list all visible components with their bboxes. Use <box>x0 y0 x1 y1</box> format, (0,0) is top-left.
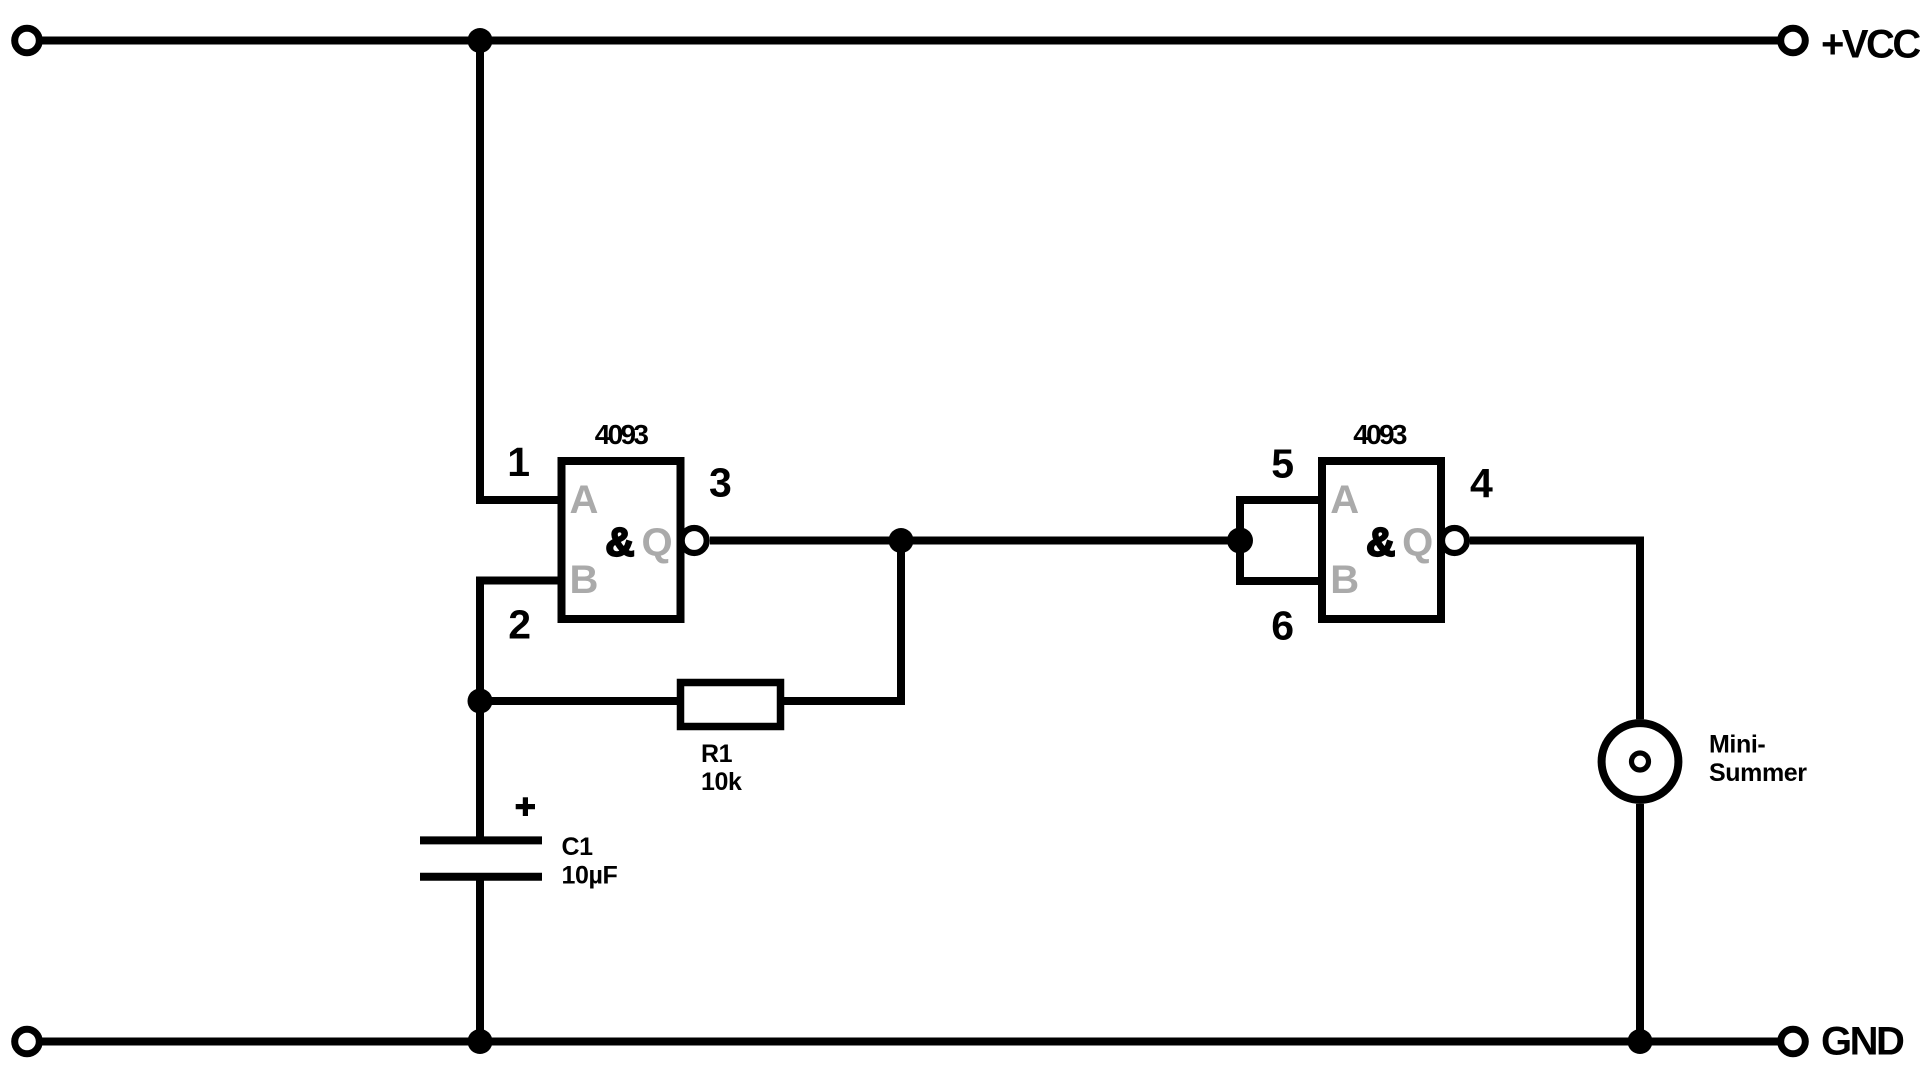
svg-text:&: & <box>606 521 635 565</box>
svg-text:GND: GND <box>1821 1020 1904 1064</box>
svg-text:R1: R1 <box>701 740 733 768</box>
svg-text:A: A <box>1330 478 1359 522</box>
svg-text:1: 1 <box>507 439 530 485</box>
svg-text:4093: 4093 <box>595 419 649 450</box>
svg-text:Q: Q <box>1402 521 1433 565</box>
svg-text:5: 5 <box>1271 441 1294 487</box>
svg-text:4093: 4093 <box>1353 419 1407 450</box>
svg-text:2: 2 <box>508 602 531 648</box>
svg-text:10µF: 10µF <box>562 862 618 890</box>
svg-text:+VCC: +VCC <box>1821 22 1920 66</box>
svg-text:B: B <box>1330 558 1359 602</box>
svg-text:Summer: Summer <box>1709 759 1807 787</box>
svg-text:4: 4 <box>1470 460 1493 506</box>
svg-text:B: B <box>570 558 599 602</box>
svg-text:3: 3 <box>709 460 732 506</box>
svg-text:10k: 10k <box>701 768 742 796</box>
svg-text:Mini-: Mini- <box>1709 731 1765 759</box>
svg-text:&: & <box>1366 521 1395 565</box>
svg-text:6: 6 <box>1271 603 1294 649</box>
svg-text:A: A <box>570 478 599 522</box>
svg-text:Q: Q <box>641 521 672 565</box>
svg-text:C1: C1 <box>562 833 594 861</box>
